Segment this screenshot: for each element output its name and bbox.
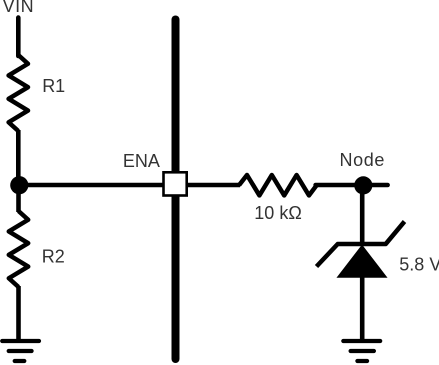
wire R1 to node A bbox=[16, 130, 21, 186]
resistor R2 bbox=[9, 211, 28, 287]
svg-text:R2: R2 bbox=[42, 247, 65, 267]
svg-text:ENA: ENA bbox=[123, 151, 160, 171]
svg-text:5.8 V: 5.8 V bbox=[399, 255, 439, 275]
node B junction dot bbox=[354, 176, 372, 194]
wire VIN to R1 bbox=[16, 18, 21, 56]
wire zener anode to ground bbox=[360, 276, 365, 341]
wire R3 to node stub bbox=[316, 183, 388, 188]
svg-text:R1: R1 bbox=[42, 76, 65, 96]
resistor R1 bbox=[9, 55, 28, 131]
node A junction dot bbox=[10, 176, 28, 194]
wire node A to R2 bbox=[16, 185, 21, 212]
svg-text:Node: Node bbox=[340, 150, 385, 170]
wire node B to zener cathode bbox=[360, 185, 365, 244]
zener diode D1 cathode bar with bent ends bbox=[317, 222, 405, 267]
zener diode D1 anode triangle bbox=[339, 246, 386, 277]
ground (left) bbox=[2, 341, 39, 361]
wire R2 to ground bbox=[16, 286, 21, 341]
wire ENA box to R3 bbox=[188, 183, 240, 188]
pin box ENA bbox=[164, 172, 187, 195]
wire node A to ENA box bbox=[19, 183, 163, 188]
svg-text:VIN: VIN bbox=[3, 0, 35, 16]
svg-text:10 kΩ: 10 kΩ bbox=[254, 203, 301, 223]
ground (right) bbox=[343, 341, 380, 361]
resistor 10 kOhm bbox=[239, 175, 317, 195]
vertical device bar bbox=[172, 20, 180, 360]
